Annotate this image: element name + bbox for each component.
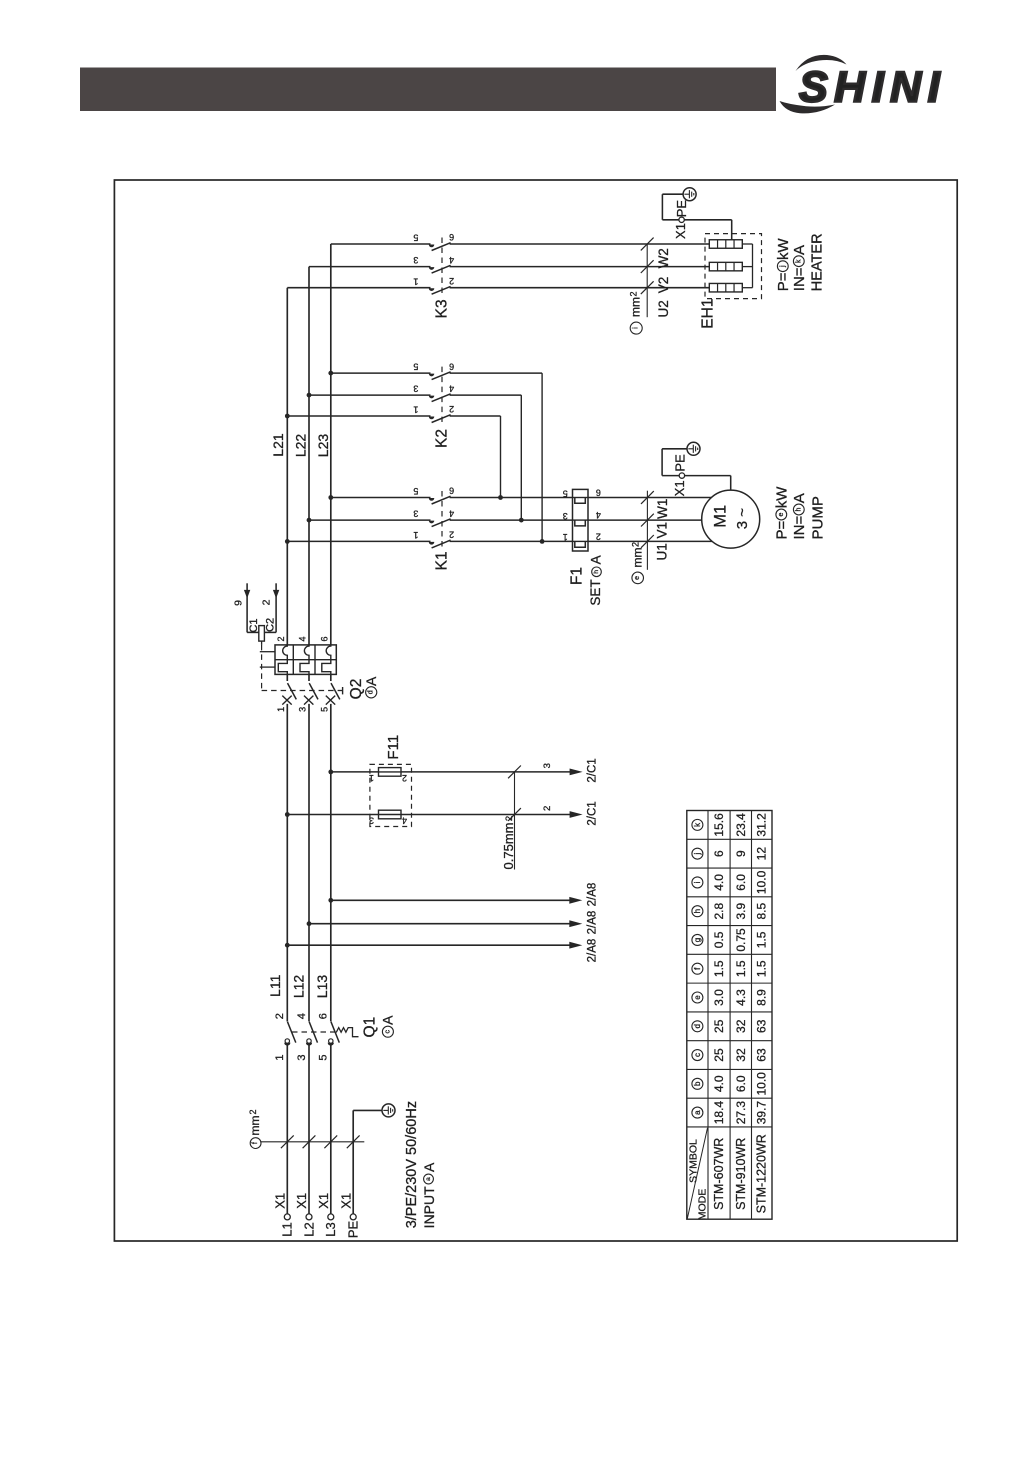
svg-text:SET: SET <box>588 579 603 605</box>
fuse element 1-2 <box>379 768 402 777</box>
svg-text:L22: L22 <box>293 434 309 458</box>
svg-text:6.0: 6.0 <box>734 874 748 891</box>
svg-text:a: a <box>425 1177 432 1181</box>
wire K2 pole 3-4 left <box>309 394 431 396</box>
wire K3 pole right <box>450 266 710 268</box>
svg-text:2: 2 <box>542 806 553 811</box>
contact hook K3 <box>429 288 435 291</box>
wire K1 pole right <box>450 497 573 499</box>
wire K1 pole right <box>450 519 573 521</box>
svg-text:4.0: 4.0 <box>712 874 726 891</box>
terminal X1 L2 <box>306 1214 312 1220</box>
svg-text:mm: mm <box>629 297 643 317</box>
heater element resistor <box>709 262 742 271</box>
svg-text:31.2: 31.2 <box>755 813 769 837</box>
EH1 dashed enclosure <box>705 234 762 299</box>
svg-text:0.75: 0.75 <box>734 928 748 952</box>
svg-text:3: 3 <box>413 384 418 394</box>
wire element to star bus <box>742 266 752 268</box>
contact blade K2 <box>432 415 451 423</box>
Q2 contact blade <box>331 683 340 699</box>
terminal X1 L1 <box>284 1214 290 1220</box>
wire K2 pole right <box>450 394 522 396</box>
svg-text:9: 9 <box>734 850 748 857</box>
table grid line <box>687 896 772 898</box>
svg-text:A: A <box>791 493 808 503</box>
svg-text:mm: mm <box>631 548 645 568</box>
svg-text:2: 2 <box>630 542 640 547</box>
Q2 body <box>275 645 336 675</box>
svg-text:4: 4 <box>449 255 454 265</box>
svg-text:6.0: 6.0 <box>734 1075 748 1092</box>
svg-text:X1: X1 <box>673 223 688 239</box>
svg-text:STM-607WR: STM-607WR <box>712 1138 726 1210</box>
svg-text:1: 1 <box>413 276 418 286</box>
svg-text:C1: C1 <box>248 618 260 632</box>
svg-text:PE: PE <box>673 454 688 472</box>
svg-text:1: 1 <box>413 530 418 540</box>
wire K2 pole right <box>450 415 501 417</box>
svg-text:4.3: 4.3 <box>734 989 748 1006</box>
svg-text:c: c <box>384 1029 391 1033</box>
breaker Q2 <box>260 636 379 711</box>
wire tap to 2/A8 (L13) <box>331 899 570 901</box>
contact blade K2 <box>432 394 451 402</box>
contact blade K1 <box>432 540 451 548</box>
wire bus L21/L11 (phase 1) <box>286 288 288 645</box>
contact blade K1 <box>432 496 451 504</box>
arrow to 2/C1 (wire 2) <box>570 811 583 818</box>
svg-text:L13: L13 <box>314 975 330 999</box>
Q2 thermal element <box>322 645 331 675</box>
svg-text:1: 1 <box>369 773 374 783</box>
svg-text:j: j <box>693 853 702 856</box>
table grid line <box>687 1011 772 1013</box>
svg-text:3.0: 3.0 <box>712 989 726 1006</box>
contact blade K2 <box>432 372 451 380</box>
svg-text:2: 2 <box>628 291 638 296</box>
F1 heater element <box>573 540 589 542</box>
terminal X1 L3 <box>328 1214 334 1220</box>
svg-text:2: 2 <box>274 1013 286 1019</box>
svg-text:5: 5 <box>319 707 329 712</box>
svg-text:PUMP: PUMP <box>810 496 827 539</box>
svg-text:K2: K2 <box>434 429 451 448</box>
svg-text:L2: L2 <box>301 1222 316 1236</box>
frame border <box>114 180 957 1241</box>
table grid line <box>687 1097 772 1099</box>
svg-text:2/A8: 2/A8 <box>587 911 599 935</box>
fuse element 3-4 <box>379 810 402 819</box>
svg-text:6: 6 <box>449 232 454 242</box>
svg-text:32: 32 <box>734 1048 748 1062</box>
junction F11 taps <box>328 770 333 775</box>
svg-text:4: 4 <box>298 636 308 641</box>
wire U1 <box>588 540 712 542</box>
svg-text:X1: X1 <box>338 1193 353 1209</box>
svg-text:PE: PE <box>674 200 689 218</box>
svg-text:25: 25 <box>712 1019 726 1033</box>
wire V1 <box>588 519 702 521</box>
svg-text:6: 6 <box>319 636 329 641</box>
svg-text:Q1: Q1 <box>361 1017 378 1038</box>
Q1 contact jaw <box>284 1043 290 1046</box>
svg-text:2.8: 2.8 <box>712 903 726 920</box>
Q2 contact blade <box>309 683 318 699</box>
svg-text:e: e <box>693 995 702 1000</box>
svg-text:F11: F11 <box>385 735 402 760</box>
svg-text:EH1: EH1 <box>700 299 717 329</box>
table grid line <box>687 1040 772 1042</box>
wire gauge marker heater (i)mm2 <box>646 244 648 317</box>
svg-text:6: 6 <box>712 850 726 857</box>
Q1 contact blade <box>309 1022 317 1043</box>
wire gauge marker motor (e)mm2 <box>646 491 648 570</box>
breaker Q1 <box>274 1013 395 1060</box>
heater element resistor <box>709 240 742 249</box>
F1 heater element <box>573 519 589 521</box>
wire K2 pole right <box>450 372 542 374</box>
wire K1 pole 1-2 left <box>287 540 430 542</box>
svg-text:2: 2 <box>504 816 515 821</box>
svg-text:mm: mm <box>248 1116 262 1136</box>
svg-text:4: 4 <box>449 383 454 393</box>
svg-text:IN=: IN= <box>791 267 808 291</box>
Q2 thermal element <box>300 645 309 675</box>
svg-text:X1: X1 <box>672 480 687 496</box>
svg-text:12: 12 <box>755 847 769 861</box>
table grid line <box>687 838 772 840</box>
svg-text:a: a <box>693 1110 702 1115</box>
svg-text:g: g <box>693 938 702 942</box>
table column symbol (c) <box>692 1050 703 1061</box>
wire to coil <box>247 631 259 633</box>
Q2 contact x-mark <box>282 696 291 705</box>
Q1 contact jaw <box>328 1043 334 1046</box>
contact hook K3 <box>429 245 435 248</box>
svg-text:d: d <box>693 1024 702 1028</box>
wire 2 drop <box>275 583 277 632</box>
svg-text:A: A <box>363 676 379 686</box>
svg-text:2/C1: 2/C1 <box>587 758 599 782</box>
wire PE input <box>352 1110 354 1214</box>
svg-text:k: k <box>795 259 802 263</box>
svg-text:STM-1220WR: STM-1220WR <box>755 1134 769 1213</box>
Q1 contact blade <box>288 1022 296 1043</box>
svg-text:MODE: MODE <box>697 1189 709 1221</box>
svg-text:6: 6 <box>449 361 454 371</box>
table column symbol (i) <box>692 877 703 888</box>
svg-text:3: 3 <box>563 511 568 521</box>
linkage K2 <box>441 367 443 422</box>
svg-text:X1: X1 <box>294 1193 309 1209</box>
svg-text:63: 63 <box>755 1019 769 1033</box>
coil body <box>259 626 265 642</box>
svg-text:3 ~: 3 ~ <box>734 508 751 530</box>
wire heater PE/X1 <box>684 219 731 221</box>
motor M1 <box>702 490 760 548</box>
contact hook K3 <box>429 267 435 270</box>
svg-text:kW: kW <box>774 486 791 509</box>
table header diagonal <box>687 1128 707 1219</box>
table column symbol (j) <box>692 848 703 859</box>
svg-text:1.5: 1.5 <box>755 931 769 948</box>
svg-text:2: 2 <box>248 1109 258 1114</box>
svg-text:3: 3 <box>542 763 553 768</box>
svg-text:5: 5 <box>413 486 418 496</box>
table column symbol (h) <box>692 906 703 917</box>
wire gauge marker input (f)mm2 <box>261 1141 364 1143</box>
F1 heater element <box>573 497 589 499</box>
svg-text:h: h <box>693 909 702 913</box>
svg-text:F1: F1 <box>569 567 586 585</box>
wire K3 pole 5-6 left <box>331 243 431 245</box>
svg-text:4.0: 4.0 <box>712 1075 726 1092</box>
svg-text:INPUT: INPUT <box>421 1186 437 1228</box>
wire K2 pole 1-2 left <box>287 415 430 417</box>
svg-text:3.9: 3.9 <box>734 903 748 920</box>
table grid line <box>687 1068 772 1070</box>
svg-text:3: 3 <box>413 255 418 265</box>
linkage K1 <box>441 491 443 547</box>
svg-text:M1: M1 <box>711 505 729 528</box>
Q1 linkage dashes <box>292 1031 338 1033</box>
svg-text:3: 3 <box>369 816 374 826</box>
svg-text:X1: X1 <box>316 1193 331 1209</box>
svg-text:2: 2 <box>402 773 407 783</box>
svg-text:L21: L21 <box>270 433 286 457</box>
svg-text:kW: kW <box>775 238 792 261</box>
svg-text:e: e <box>778 512 785 516</box>
table grid line <box>729 811 731 1220</box>
coil to linkage stub <box>261 641 263 645</box>
overload relay F1 <box>563 488 604 606</box>
svg-text:2: 2 <box>260 599 272 605</box>
svg-text:5: 5 <box>413 233 418 243</box>
contact hook K1 <box>429 521 435 524</box>
svg-text:L1: L1 <box>280 1222 295 1236</box>
svg-text:2: 2 <box>449 404 454 414</box>
svg-text:P=: P= <box>775 272 792 291</box>
contact hook K2 <box>429 417 435 420</box>
wire tap to 2/A8 (L12) <box>309 923 570 925</box>
terminal X1 PE <box>350 1214 356 1220</box>
svg-text:4: 4 <box>449 508 454 518</box>
table column symbol (b) <box>692 1078 703 1089</box>
Q1 contact jaw <box>306 1043 312 1046</box>
svg-text:SYMBOL: SYMBOL <box>688 1139 700 1183</box>
svg-text:A: A <box>421 1162 437 1172</box>
svg-text:63: 63 <box>755 1048 769 1062</box>
terminal X1 motor PE <box>679 473 684 478</box>
svg-text:h: h <box>795 507 802 511</box>
table grid line <box>751 811 753 1220</box>
svg-text:25: 25 <box>712 1048 726 1062</box>
F1 body <box>573 489 589 551</box>
svg-text:4: 4 <box>296 1013 308 1019</box>
svg-text:18.4: 18.4 <box>712 1101 726 1125</box>
bus L21 corner to K3 <box>286 287 288 289</box>
svg-text:8.5: 8.5 <box>755 903 769 920</box>
table column symbol (g) <box>692 934 703 945</box>
contact hook K2 <box>429 374 435 377</box>
table column symbol (a) <box>692 1107 703 1118</box>
wire 9 drop <box>246 583 248 632</box>
svg-text:2: 2 <box>276 636 286 641</box>
table column symbol (d) <box>692 1021 703 1032</box>
linkage K3 <box>441 238 443 294</box>
svg-text:L11: L11 <box>267 974 283 997</box>
svg-text:10.0: 10.0 <box>755 1072 769 1096</box>
svg-text:U2: U2 <box>656 300 671 317</box>
svg-text:5: 5 <box>413 362 418 372</box>
svg-text:A: A <box>588 555 603 564</box>
svg-text:c: c <box>693 1053 702 1057</box>
wire K3 pole right <box>450 287 710 289</box>
arrow to 2/C1 (wire 3) <box>570 769 583 776</box>
svg-text:IN=: IN= <box>791 516 808 540</box>
terminal X1 heater PE <box>679 217 684 222</box>
svg-text:15.6: 15.6 <box>712 813 726 837</box>
Q2 rating (d)A <box>366 687 377 698</box>
wire K1 pole 5-6 left <box>331 497 431 499</box>
Q2 contact blade <box>288 683 297 699</box>
svg-text:K1: K1 <box>434 551 451 570</box>
svg-text:10.0: 10.0 <box>755 870 769 894</box>
svg-text:23.4: 23.4 <box>734 813 748 837</box>
wire bus L23/L13 (phase 3) <box>330 244 332 645</box>
svg-text:1: 1 <box>274 1054 286 1060</box>
wire K1 pole 3-4 left <box>309 519 431 521</box>
header bar <box>80 68 776 112</box>
table grid line <box>687 953 772 955</box>
svg-text:STM-910WR: STM-910WR <box>734 1138 748 1210</box>
svg-text:1.5: 1.5 <box>712 960 726 977</box>
svg-text:f: f <box>252 1142 259 1144</box>
svg-text:0.5: 0.5 <box>712 931 726 948</box>
svg-text:W1: W1 <box>655 499 670 519</box>
svg-text:3: 3 <box>413 509 418 519</box>
svg-text:1.5: 1.5 <box>755 960 769 977</box>
table column symbol (f) <box>692 963 703 974</box>
table column symbol (k) <box>692 819 703 830</box>
svg-text:2/C1: 2/C1 <box>587 801 599 825</box>
svg-text:i: i <box>693 881 702 883</box>
Q1 rating (c)A <box>382 1026 393 1037</box>
wire bus L22/L12 (phase 2) <box>308 267 310 645</box>
coil C1-C2 (Q2 release) <box>232 583 279 645</box>
table column symbol (e) <box>692 992 703 1003</box>
contact hook K1 <box>429 542 435 545</box>
svg-text:2/A8: 2/A8 <box>587 939 599 963</box>
svg-text:X1: X1 <box>273 1193 288 1209</box>
junction K2 taps <box>328 371 333 376</box>
wire K2 pole 5-6 left <box>331 372 431 374</box>
svg-text:6: 6 <box>596 488 601 498</box>
ground symbol input PE <box>382 1104 395 1117</box>
svg-text:0.75mm: 0.75mm <box>501 823 516 870</box>
Q2 coil stubs <box>260 651 275 653</box>
svg-text:L23: L23 <box>315 434 331 458</box>
svg-text:1: 1 <box>413 405 418 415</box>
ground symbol motor PE <box>687 442 700 455</box>
Q1 trip zigzag <box>336 1028 358 1037</box>
heater EH1 <box>700 234 762 329</box>
svg-text:3/PE/230V 50/60Hz: 3/PE/230V 50/60Hz <box>404 1101 420 1228</box>
table grid line <box>707 811 709 1220</box>
junction K2-drop joins <box>498 495 503 500</box>
Q2 contact x-mark <box>304 696 313 705</box>
table: model ratings <box>687 811 772 1221</box>
wire motor PE <box>730 476 732 491</box>
Q1 contact blade <box>331 1022 339 1043</box>
svg-text:1.5: 1.5 <box>734 960 748 977</box>
svg-text:8.9: 8.9 <box>755 989 769 1006</box>
svg-text:3: 3 <box>296 1054 308 1060</box>
svg-text:V2: V2 <box>656 277 671 294</box>
table grid line <box>687 982 772 984</box>
svg-text:V1: V1 <box>655 522 670 539</box>
svg-text:5: 5 <box>318 1054 330 1060</box>
wire fuse 3-4 <box>287 814 570 816</box>
contact blade K1 <box>432 519 451 527</box>
svg-text:P=: P= <box>774 520 791 539</box>
wire K3 pole 3-4 left <box>309 266 431 268</box>
svg-text:4: 4 <box>596 510 601 520</box>
Q2 contact x-mark <box>326 696 335 705</box>
svg-text:L3: L3 <box>323 1222 338 1236</box>
contact blade K3 <box>432 286 451 294</box>
svg-text:2: 2 <box>596 531 601 541</box>
svg-text:32: 32 <box>734 1019 748 1033</box>
svg-text:HEATER: HEATER <box>810 233 826 291</box>
svg-text:5: 5 <box>563 488 568 498</box>
wire tap to 2/A8 (L11) <box>287 944 570 946</box>
svg-text:K3: K3 <box>434 299 451 318</box>
wire K3 pole 1-2 left <box>287 287 430 289</box>
contact blade K3 <box>432 243 451 251</box>
F11 dashed enclosure <box>370 764 412 826</box>
contact hook K1 <box>429 498 435 501</box>
svg-text:3: 3 <box>298 707 308 712</box>
svg-text:1: 1 <box>563 532 568 542</box>
Q2 thermal element <box>278 645 287 675</box>
table grid line <box>687 925 772 927</box>
wire element to star bus <box>742 287 752 289</box>
svg-text:e: e <box>634 576 641 580</box>
svg-text:W2: W2 <box>656 248 671 268</box>
svg-text:C2: C2 <box>264 618 276 632</box>
contact blade K3 <box>432 265 451 273</box>
svg-text:9: 9 <box>232 600 244 606</box>
svg-text:27.3: 27.3 <box>734 1101 748 1125</box>
wire K2 output drops <box>541 373 543 541</box>
svg-text:d: d <box>368 690 375 694</box>
svg-text:j: j <box>779 265 786 268</box>
ground symbol heater PE <box>683 188 696 201</box>
wire gauge 0.75mm2 <box>514 772 516 870</box>
wire fuse 1-2 <box>331 771 570 773</box>
svg-text:6: 6 <box>318 1013 330 1019</box>
heater element resistor <box>709 283 742 292</box>
svg-text:b: b <box>693 1081 702 1086</box>
svg-text:2: 2 <box>449 276 454 286</box>
svg-text:1: 1 <box>276 707 286 712</box>
svg-text:PE: PE <box>346 1221 361 1239</box>
table grid line <box>687 867 772 869</box>
svg-text:6: 6 <box>449 486 454 496</box>
wire heater star bus <box>752 244 754 288</box>
